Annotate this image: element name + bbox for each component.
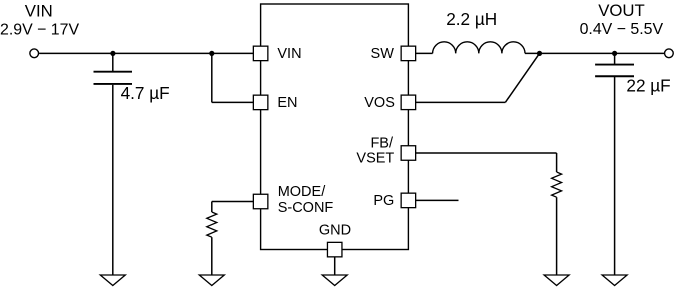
ground R-MODE: [199, 275, 224, 286]
terminal VIN: [30, 49, 39, 58]
pin PG: [401, 193, 416, 208]
pin VIN: [253, 46, 268, 61]
pin GND: [327, 242, 342, 257]
IC U1 body: [261, 4, 409, 250]
pin FB/VSET: [401, 146, 416, 161]
wire GND pin down: [334, 257, 336, 275]
ground CIN: [100, 275, 125, 286]
capacitor CIN 4.7uF: [94, 72, 133, 84]
svg-text:FB/: FB/: [370, 135, 394, 151]
svg-text:4.7 µF: 4.7 µF: [121, 83, 170, 103]
wire EN branch horizontal: [212, 101, 254, 103]
svg-text:22 µF: 22 µF: [626, 75, 670, 95]
junction output cap: [612, 51, 617, 56]
inductor L1 2.2uH: [433, 42, 525, 54]
pin MODE/S-CONF: [253, 194, 268, 209]
ground R-FB: [544, 275, 569, 286]
wire cap CIN top: [112, 53, 114, 71]
svg-text:2.2 µH: 2.2 µH: [446, 9, 497, 29]
terminal VOUT: [665, 49, 674, 58]
wire cap COUT top: [614, 53, 616, 64]
wire VOS horizontal: [416, 101, 506, 103]
svg-text:EN: EN: [277, 95, 297, 111]
svg-text:S-CONF: S-CONF: [278, 200, 334, 216]
capacitor COUT 22uF: [595, 65, 634, 77]
resistor R-MODE: [207, 212, 217, 237]
wire PG stub: [416, 199, 459, 201]
junction EN branch: [209, 51, 214, 56]
wire input rail: [39, 52, 253, 54]
wire R-FB bottom: [556, 197, 558, 275]
wire R-MODE bottom: [211, 237, 213, 275]
junction SW node: [537, 51, 542, 56]
svg-text:PG: PG: [373, 193, 394, 209]
wire inductor to VOUT rail: [525, 52, 664, 54]
wire cap COUT bottom: [614, 77, 616, 275]
svg-text:VIN: VIN: [25, 1, 53, 20]
resistor R-FB: [552, 172, 562, 197]
junction input cap: [110, 51, 115, 56]
pin SW: [401, 46, 416, 61]
svg-text:VOS: VOS: [364, 95, 395, 111]
ground COUT: [602, 275, 627, 286]
wire FB horizontal: [416, 152, 557, 154]
svg-text:VOUT: VOUT: [598, 1, 645, 20]
svg-text:VSET: VSET: [356, 151, 394, 167]
ground GND pin: [322, 275, 347, 286]
wire MODE branch horizontal: [212, 201, 254, 203]
pin VOS: [401, 95, 416, 110]
svg-text:VIN: VIN: [277, 46, 301, 62]
wire cap CIN bottom: [112, 85, 114, 275]
wire EN branch vertical: [211, 53, 213, 102]
svg-text:SW: SW: [371, 46, 395, 62]
wire MODE branch vertical: [211, 202, 213, 213]
svg-text:0.4V − 5.5V: 0.4V − 5.5V: [580, 21, 664, 38]
svg-text:MODE/: MODE/: [278, 184, 327, 200]
wire SW to inductor: [416, 52, 433, 54]
wire VOS sense diagonal: [505, 53, 539, 102]
svg-text:2.9V − 17V: 2.9V − 17V: [0, 22, 79, 39]
svg-text:GND: GND: [319, 223, 351, 239]
pin EN: [253, 95, 268, 110]
wire FB down: [556, 153, 558, 172]
